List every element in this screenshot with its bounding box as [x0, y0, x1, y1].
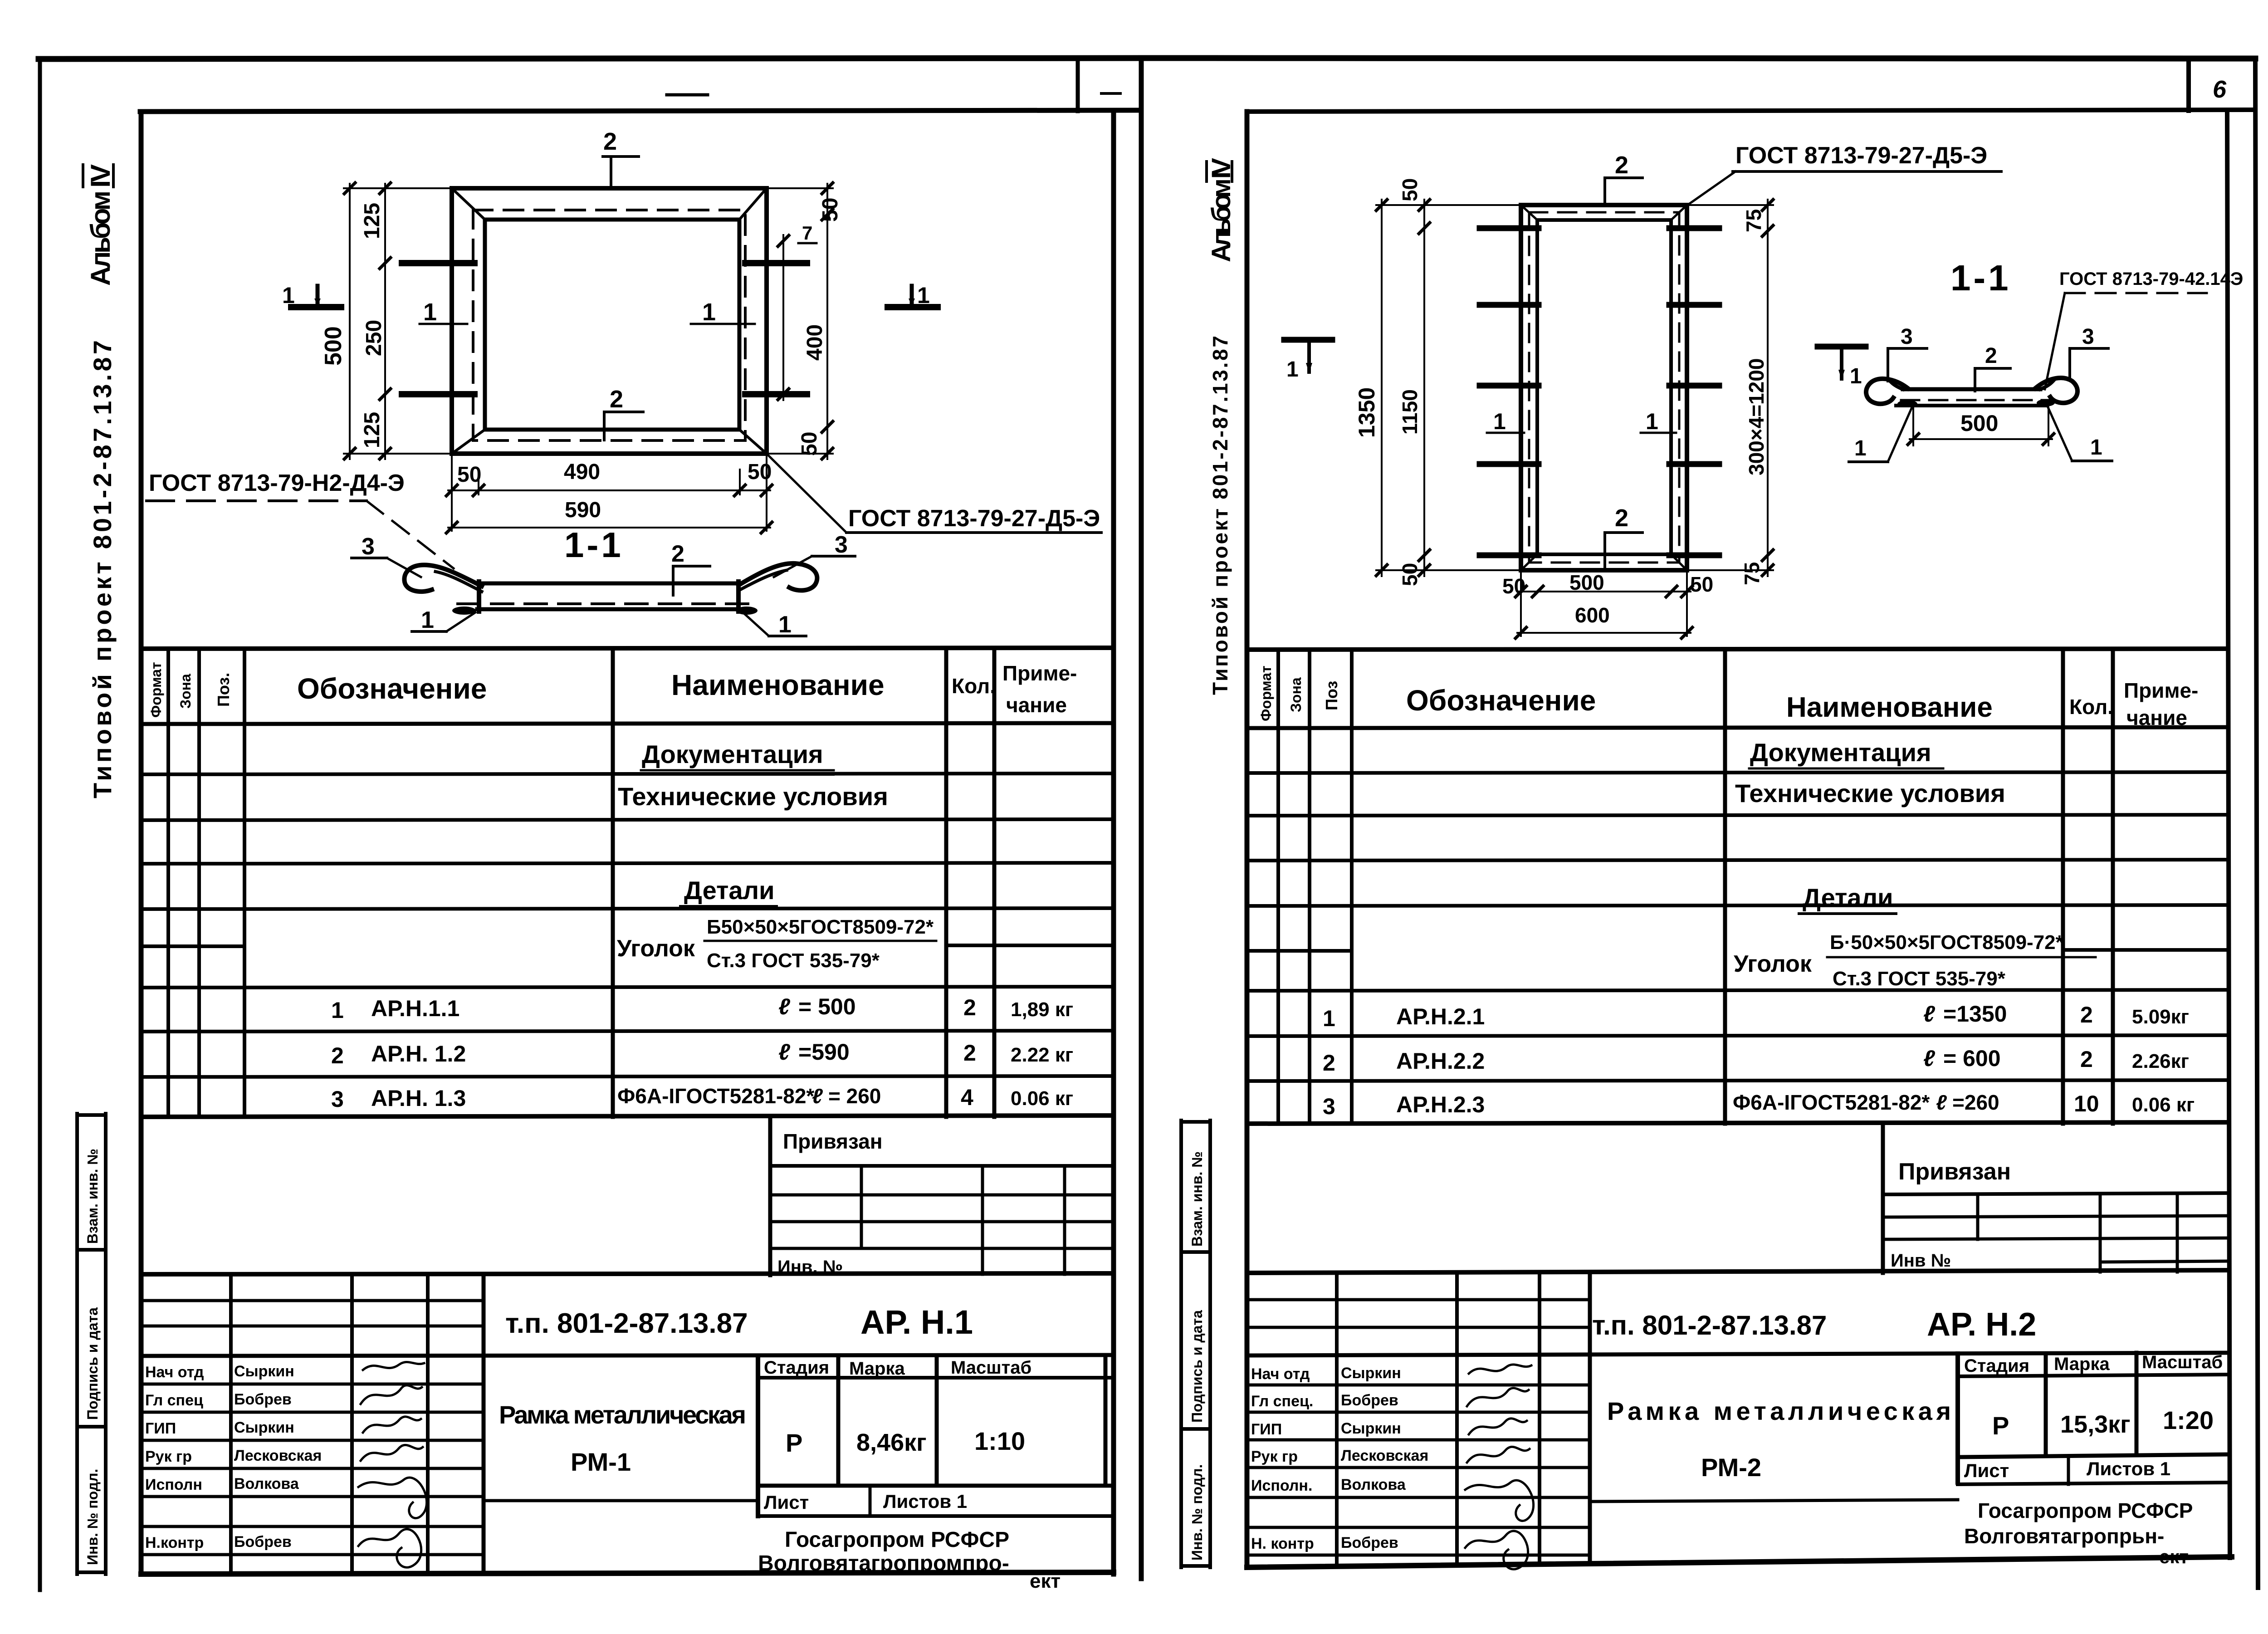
svg-text:Нач отд: Нач отд: [1251, 1365, 1310, 1383]
svg-text:Марка: Марка: [849, 1359, 905, 1379]
svg-text:400: 400: [803, 324, 827, 361]
extension verticals for bottom dims: [451, 454, 453, 531]
spec table bottom: [1247, 1122, 2228, 1124]
section view: left hook (pos.3): [1866, 379, 1908, 404]
svg-text:АР. Н.2: АР. Н.2: [1927, 1306, 2036, 1343]
svg-text:2: 2: [603, 128, 617, 155]
name cell divider: [1955, 1354, 1960, 1482]
svg-text:Бобрев: Бобрев: [234, 1391, 292, 1408]
sheet 1 top strip cell divider: [1076, 59, 1080, 111]
svg-text:Р: Р: [1992, 1411, 2009, 1440]
svg-text:Обозначение: Обозначение: [297, 672, 487, 705]
left dim extension lines: [1376, 204, 1521, 206]
svg-text:т.п. 801-2-87.13.87: т.п. 801-2-87.13.87: [505, 1308, 748, 1339]
svg-text:2: 2: [2080, 1002, 2093, 1027]
svg-text:Н.контр: Н.контр: [145, 1534, 204, 1551]
svg-text:Лесковская: Лесковская: [1341, 1447, 1428, 1464]
sheet 1 outer border top: [39, 58, 1141, 59]
svg-text:Наименование: Наименование: [671, 669, 885, 701]
svg-text:Уголок: Уголок: [617, 935, 695, 962]
svg-text:РМ-1: РМ-1: [571, 1448, 631, 1476]
signature squiggles: [363, 1362, 424, 1370]
svg-text:Документация: Документация: [1750, 738, 1931, 767]
section view: bar bottom line: [1896, 404, 2047, 407]
svg-text:ГОСТ 8713-79-Н2-Д4-Э: ГОСТ 8713-79-Н2-Д4-Э: [149, 470, 405, 496]
svg-text:= 600: = 600: [1943, 1046, 2001, 1071]
svg-text:ℓ: ℓ: [778, 1039, 791, 1065]
svg-text:Уголок: Уголок: [1734, 951, 1812, 977]
stadia header row: [758, 1376, 1114, 1380]
frame mitre diagonal top-right: [739, 188, 767, 220]
signature squiggles: [1469, 1365, 1531, 1374]
anchor bars pos.3 left (5): [1480, 225, 1539, 231]
svg-text:Взам. инв. №: Взам. инв. №: [84, 1149, 101, 1244]
svg-text:600: 600: [1575, 603, 1610, 627]
svg-text:ℓ: ℓ: [812, 1084, 823, 1108]
svg-text:Марка: Марка: [2054, 1354, 2110, 1374]
spec table row lines: [1247, 772, 2228, 773]
spec table column lines: [1276, 650, 1280, 1124]
svg-text:50: 50: [1502, 574, 1525, 598]
stray mark in top strip: [667, 93, 708, 97]
svg-text:2: 2: [2080, 1047, 2093, 1072]
svg-text:Бобрев: Бобрев: [1341, 1534, 1398, 1551]
svg-text:Зона: Зона: [177, 674, 194, 709]
section view: right upturn: [2040, 380, 2054, 389]
overline of roman IV: [82, 165, 84, 187]
svg-text:Технические условия: Технические условия: [1735, 779, 2005, 807]
svg-text:Нач отд: Нач отд: [145, 1364, 204, 1381]
section view: right hook (pos.3): [2035, 378, 2077, 403]
signature rows: [141, 1383, 484, 1386]
spec table bottom: [141, 1115, 1114, 1117]
svg-text:8,46кг: 8,46кг: [856, 1429, 927, 1456]
svg-text:ГИП: ГИП: [145, 1420, 176, 1437]
section view: dashed axis: [458, 602, 756, 605]
anchor bar pos.3 right upper: [745, 260, 807, 266]
svg-text:1:20: 1:20: [2163, 1406, 2214, 1434]
svg-text:1-1: 1-1: [564, 525, 624, 565]
PAGE2-TITLEBLOCK: [1247, 1270, 2228, 1569]
svg-text:ект: ект: [1030, 1570, 1061, 1592]
weld spot left: [452, 607, 476, 615]
line under first big row: [141, 1355, 1114, 1356]
svg-text:Инв. № подл.: Инв. № подл.: [1189, 1464, 1205, 1561]
stadia value box: [2044, 1354, 2048, 1456]
svg-text:ℓ: ℓ: [1923, 1046, 1936, 1071]
svg-text:АР.Н.2.2: АР.Н.2.2: [1396, 1048, 1485, 1074]
section view: bar bottom line: [477, 607, 740, 612]
svg-text:50: 50: [818, 198, 842, 222]
svg-text:Зона: Зона: [1288, 677, 1304, 712]
title block columns: [229, 1274, 233, 1574]
left dim chain: extension lines: [344, 187, 452, 189]
margin cells verticals: [1179, 1120, 1183, 1567]
svg-text:Волговятагропромпро-: Волговятагропромпро-: [758, 1551, 1009, 1575]
svg-text:Сыркин: Сыркин: [234, 1419, 294, 1436]
anchor bar pos.3 left lower: [402, 391, 474, 397]
svg-text:Исполн: Исполн: [145, 1476, 202, 1493]
svg-text:Масштаб: Масштаб: [2142, 1352, 2223, 1372]
svg-text:чание: чание: [1006, 693, 1067, 717]
svg-text:3: 3: [2082, 325, 2094, 349]
svg-text:Н. контр: Н. контр: [1251, 1535, 1314, 1552]
right dim 400 line: [782, 235, 784, 400]
svg-text:Ф6А-IГОСТ5281-82*: Ф6А-IГОСТ5281-82*: [617, 1084, 814, 1108]
svg-text:Рук гр: Рук гр: [145, 1448, 192, 1465]
svg-text:2: 2: [331, 1043, 344, 1068]
svg-text:4: 4: [961, 1085, 973, 1110]
svg-text:0.06 кг: 0.06 кг: [1011, 1087, 1073, 1110]
svg-text:ℓ: ℓ: [1923, 1001, 1936, 1027]
PAGE2-TABLE: [1247, 649, 2228, 1273]
svg-text:Документация: Документация: [642, 740, 823, 768]
sheet 1 top strip line (inner frame top): [140, 110, 1141, 112]
section view: bar top line: [477, 582, 740, 586]
svg-text:Приме-: Приме-: [2124, 679, 2198, 702]
spec table column lines: [166, 649, 170, 1117]
sheet 2 inner frame left: [1245, 112, 1250, 1567]
svg-text:2: 2: [963, 1040, 976, 1066]
thin rows top-left: [141, 1299, 484, 1302]
list row: [758, 1514, 1114, 1518]
svg-text:Типовой проект 801-2-87.13.87: Типовой проект 801-2-87.13.87: [88, 340, 117, 798]
section mark 1 near section view: [1818, 344, 1866, 350]
svg-text:1: 1: [702, 298, 716, 326]
svg-text:Бобрев: Бобрев: [234, 1533, 292, 1551]
svg-text:Поз.: Поз.: [214, 673, 233, 707]
svg-text:Рук гр: Рук гр: [1251, 1448, 1298, 1465]
frame mitre diagonal bottom-right: [739, 430, 767, 454]
weld spot right: [736, 607, 758, 615]
svg-text:3: 3: [1323, 1094, 1335, 1119]
svg-text:50: 50: [1398, 178, 1422, 201]
svg-text:АР.Н.2.1: АР.Н.2.1: [1396, 1004, 1485, 1029]
svg-text:Инв №: Инв №: [1891, 1251, 1951, 1271]
svg-text:Волкова: Волкова: [234, 1475, 299, 1492]
svg-text:1: 1: [2090, 435, 2102, 460]
margin cells dividers: [77, 1113, 106, 1117]
frame dashed centre contour: [473, 210, 745, 440]
svg-text:2.22 кг: 2.22 кг: [1011, 1044, 1073, 1066]
privyazan mini-table frame: [1881, 1124, 1885, 1273]
svg-text:ект: ект: [2159, 1546, 2189, 1567]
spec table top: [1247, 649, 2228, 650]
svg-text:Кол.: Кол.: [952, 674, 996, 698]
svg-text:Исполн.: Исполн.: [1251, 1477, 1312, 1494]
svg-text:Волговятагропрьн-: Волговятагропрьн-: [1964, 1524, 2164, 1548]
svg-text:15,3кг: 15,3кг: [2060, 1411, 2131, 1438]
svg-text:1,89 кг: 1,89 кг: [1011, 998, 1073, 1021]
bottom dim line 50/500/50: [1517, 591, 1691, 592]
svg-text:125: 125: [360, 203, 384, 239]
svg-text:=590: =590: [798, 1039, 850, 1065]
frame RM-1 plan view: inner contour (opening): [485, 220, 739, 430]
svg-text:3: 3: [1901, 325, 1913, 349]
frame mitre diagonal top-left: [452, 188, 485, 220]
anchor bar pos.3 left upper: [402, 260, 474, 266]
svg-text:2: 2: [671, 541, 684, 567]
svg-text:т.п. 801-2-87.13.87: т.п. 801-2-87.13.87: [1592, 1310, 1827, 1340]
svg-text:Привязан: Привязан: [1898, 1159, 2011, 1185]
frame RM-1 plan view: outer contour: [452, 188, 767, 454]
svg-text:1: 1: [282, 283, 295, 308]
svg-text:1: 1: [1286, 357, 1299, 382]
frame dashed centre contour: [1529, 212, 1679, 563]
left dim line 125/250/125: [384, 184, 386, 459]
sheet 1 inner frame right: [1111, 111, 1116, 1574]
svg-text:Лесковская: Лесковская: [234, 1447, 322, 1464]
spec table header bottom: [1247, 727, 2228, 728]
bottom dim line 600: [1517, 632, 1691, 634]
svg-text:=260: =260: [1952, 1091, 1999, 1114]
svg-text:Формат: Формат: [1258, 665, 1274, 721]
frame RM-2 plan view: inner contour: [1537, 220, 1671, 554]
sheet 2 outer border right: [2255, 59, 2258, 1588]
svg-text:Кол.: Кол.: [2069, 695, 2113, 719]
svg-text:1: 1: [1493, 409, 1506, 434]
svg-text:6: 6: [2213, 76, 2227, 103]
margin cells dividers: [1181, 1120, 1210, 1124]
spec table header bottom: [141, 723, 1114, 724]
svg-text:75: 75: [1740, 562, 1764, 585]
svg-text:Сыркин: Сыркин: [1341, 1420, 1401, 1437]
line under first big row: [1247, 1353, 2228, 1355]
svg-text:490: 490: [564, 460, 600, 484]
svg-text:50: 50: [1398, 563, 1422, 586]
svg-text:Листов 1: Листов 1: [883, 1491, 967, 1512]
frame mitre diagonal bottom-left: [452, 430, 485, 454]
PAGE2-MARGIN: [1181, 158, 1236, 1567]
PAGE1-DRAWING: [147, 128, 1101, 638]
svg-text:1350: 1350: [1354, 387, 1379, 438]
svg-text:50: 50: [1690, 572, 1713, 596]
svg-text:1: 1: [1646, 409, 1658, 434]
signature rows: [1247, 1384, 1590, 1387]
svg-text:1: 1: [778, 612, 792, 638]
svg-text:2: 2: [610, 386, 623, 413]
section view: bar top line: [1903, 387, 2040, 391]
svg-text:Госагропром РСФСР: Госагропром РСФСР: [1978, 1499, 2193, 1522]
svg-text:2: 2: [963, 995, 976, 1020]
svg-text:АР.Н. 1.2: АР.Н. 1.2: [371, 1041, 466, 1067]
svg-text:Формат: Формат: [148, 662, 164, 718]
svg-text:Обозначение: Обозначение: [1406, 684, 1596, 717]
svg-text:1: 1: [1850, 364, 1862, 388]
right dim 50/400/50 line: [826, 184, 828, 459]
svg-text:1: 1: [917, 283, 930, 308]
svg-text:Инв. № подл.: Инв. № подл.: [84, 1469, 101, 1565]
title block columns: [1335, 1273, 1339, 1566]
svg-text:Технические условия: Технические условия: [618, 782, 888, 811]
frame RM-2 plan view: outer contour: [1521, 205, 1687, 570]
name cell divider: [756, 1356, 760, 1516]
svg-text:1: 1: [331, 998, 344, 1023]
section view: left hook (pos.3): [404, 565, 482, 592]
svg-text:500: 500: [1569, 571, 1604, 594]
svg-text:50: 50: [748, 460, 772, 484]
svg-text:125: 125: [360, 412, 384, 448]
svg-text:Детали: Детали: [684, 876, 775, 905]
left dim line 1350: [1381, 200, 1383, 576]
svg-text:ℓ: ℓ: [778, 994, 791, 1019]
section view: left end cap: [477, 582, 481, 612]
section view: right hook (pos.3): [738, 563, 817, 591]
spec table top: [141, 648, 1114, 649]
svg-text:10: 10: [2074, 1091, 2099, 1116]
svg-text:Лист: Лист: [1964, 1460, 2009, 1481]
svg-text:Госагропром РСФСР: Госагропром РСФСР: [785, 1528, 1009, 1552]
svg-text:1: 1: [423, 298, 437, 326]
left dim line 50/1150/50: [1423, 200, 1425, 576]
svg-text:250: 250: [362, 320, 386, 356]
svg-text:1: 1: [1854, 436, 1867, 460]
bottom dim line 50/490/50: [448, 489, 770, 491]
sheet 1 outer border right (seam between sheets): [1139, 58, 1144, 1579]
svg-text:Стадия: Стадия: [1964, 1356, 2029, 1376]
svg-text:ГИП: ГИП: [1251, 1421, 1282, 1438]
svg-text:Б50×50×5ГОСТ8509-72*: Б50×50×5ГОСТ8509-72*: [707, 916, 934, 938]
section view: left upturn: [1889, 380, 1903, 389]
svg-text:АР.Н.2.3: АР.Н.2.3: [1396, 1092, 1485, 1117]
svg-text:ГОСТ 8713-79-27-Д5-Э: ГОСТ 8713-79-27-Д5-Э: [848, 505, 1100, 532]
svg-text:2: 2: [1323, 1050, 1335, 1076]
sheet 2 top strip line (inner frame top): [1247, 110, 2255, 112]
svg-text:Б·50×50×5ГОСТ8509-72*: Б·50×50×5ГОСТ8509-72*: [1830, 931, 2064, 954]
svg-text:Подпись и дата: Подпись и дата: [1189, 1310, 1205, 1423]
svg-text:Листов 1: Листов 1: [2087, 1458, 2170, 1479]
svg-text:2: 2: [1985, 344, 1997, 368]
svg-text:Типовой проект 801-2-87.13.87: Типовой проект 801-2-87.13.87: [1208, 336, 1232, 695]
svg-text:ℓ: ℓ: [1936, 1091, 1947, 1114]
svg-text:1:10: 1:10: [974, 1427, 1025, 1455]
list row: [1958, 1482, 2228, 1484]
svg-text:2: 2: [1615, 152, 1628, 179]
svg-text:1150: 1150: [1398, 389, 1422, 435]
svg-text:3: 3: [835, 532, 848, 558]
svg-text:300×4=1200: 300×4=1200: [1745, 358, 1768, 475]
svg-text:Волкова: Волкова: [1341, 1476, 1406, 1493]
svg-text:Масштаб: Масштаб: [951, 1358, 1031, 1378]
overline of roman IV: [1205, 161, 1208, 181]
svg-text:Привязан: Привязан: [783, 1130, 883, 1153]
svg-text:Гл спец.: Гл спец.: [1251, 1393, 1313, 1410]
svg-text:50: 50: [797, 432, 821, 456]
svg-text:1: 1: [1323, 1006, 1335, 1031]
svg-text:Бобрев: Бобрев: [1341, 1392, 1398, 1409]
sheet 2 inner frame bottom (title block bottom): [1247, 1557, 2232, 1567]
privyazan mini-table frame: [768, 1117, 772, 1275]
svg-text:Наименование: Наименование: [1786, 692, 1993, 723]
svg-text:Детали: Детали: [1803, 883, 1893, 912]
svg-text:500: 500: [320, 326, 347, 366]
svg-text:1: 1: [421, 607, 434, 633]
section view: right end cap: [736, 582, 741, 612]
sheet 1 outer border left: [38, 59, 42, 1590]
svg-text:АР.Н. 1.3: АР.Н. 1.3: [371, 1086, 466, 1111]
section mark 1 left: [1284, 337, 1332, 343]
sheet 2 outer border top: [1141, 58, 2255, 59]
svg-text:Сыркин: Сыркин: [1341, 1365, 1401, 1382]
svg-text:Приме-: Приме-: [1002, 661, 1077, 685]
section mark 1 right of plan: [888, 304, 938, 310]
svg-text:Ст.3 ГОСТ 535-79*: Ст.3 ГОСТ 535-79*: [707, 949, 880, 972]
svg-text:Ст.3 ГОСТ 535-79*: Ст.3 ГОСТ 535-79*: [1833, 968, 2006, 990]
sheet 1 inner frame left: [139, 112, 144, 1574]
spec table row lines: [141, 773, 1114, 774]
svg-text:ГОСТ 8713-79-42.14Э: ГОСТ 8713-79-42.14Э: [2059, 269, 2243, 289]
section dim 500: [1912, 407, 1914, 445]
sheet 1 inner frame bottom (title block bottom): [141, 1572, 1114, 1574]
anchor bar pos.3 right lower: [745, 391, 807, 397]
svg-text:7: 7: [802, 222, 812, 244]
svg-text:Рамка металлическая: Рамка металлическая: [499, 1400, 746, 1429]
svg-text:0.06 кг: 0.06 кг: [2132, 1094, 2195, 1116]
svg-text:Гл спец: Гл спец: [145, 1392, 203, 1409]
frame mitre diagonals: [1521, 205, 1537, 220]
right dim line 75/300x4=1200/75: [1767, 200, 1769, 576]
svg-text:Сыркин: Сыркин: [234, 1363, 294, 1380]
PAGE1-TITLEBLOCK: [141, 1273, 1114, 1592]
svg-text:Взам. инв. №: Взам. инв. №: [1189, 1151, 1205, 1247]
title block top: [141, 1273, 1114, 1274]
svg-text:ГОСТ 8713-79-27-Д5-Э: ГОСТ 8713-79-27-Д5-Э: [1735, 142, 1987, 169]
svg-text:Ф6А-IГОСТ5281-82*: Ф6А-IГОСТ5281-82*: [1733, 1091, 1930, 1114]
title block top: [1247, 1270, 2228, 1273]
svg-text:5.09кг: 5.09кг: [2132, 1006, 2189, 1028]
weld spot left: [1897, 400, 1917, 407]
bottom dim line 590: [448, 527, 770, 528]
thin rows top-left: [1247, 1298, 1590, 1301]
svg-text:3: 3: [362, 533, 375, 560]
PAGE1-MARGIN: [77, 164, 117, 1574]
svg-text:= 500: = 500: [798, 994, 856, 1019]
sheet 2 inner frame right: [2227, 110, 2230, 1558]
svg-text:Поз: Поз: [1322, 681, 1341, 710]
section mark 1 left of plan: [291, 304, 341, 310]
svg-text:Подпись и дата: Подпись и дата: [84, 1307, 101, 1420]
svg-text:75: 75: [1742, 209, 1765, 232]
svg-text:= 260: = 260: [828, 1084, 881, 1108]
svg-text:АР.Н.1.1: АР.Н.1.1: [371, 996, 459, 1021]
PAGE1-TABLE: [141, 648, 1114, 1277]
svg-text:Стадия: Стадия: [764, 1358, 829, 1378]
sheet 2 page number box divider: [2186, 59, 2191, 111]
svg-text:3: 3: [331, 1086, 344, 1112]
svg-text:590: 590: [565, 498, 601, 522]
stadia header row: [1958, 1375, 2228, 1376]
svg-text:Лист: Лист: [764, 1492, 809, 1513]
svg-text:Альбом IV: Альбом IV: [85, 164, 116, 286]
anchor bars pos.3 right (5): [1669, 225, 1719, 231]
svg-text:Р: Р: [786, 1429, 802, 1457]
svg-text:=1350: =1350: [1943, 1001, 2007, 1027]
svg-text:500: 500: [1960, 411, 1998, 436]
svg-text:2: 2: [1615, 504, 1628, 532]
PAGE2-DRAWING: [1284, 142, 2243, 638]
svg-text:РМ-2: РМ-2: [1701, 1453, 1761, 1482]
bottom dim extension verticals: [1520, 570, 1522, 636]
stadia value box: [836, 1356, 841, 1486]
margin cells verticals: [75, 1114, 79, 1574]
left dim line 500: [349, 184, 351, 459]
svg-text:2.26кг: 2.26кг: [2132, 1050, 2189, 1072]
svg-text:АР. Н.1: АР. Н.1: [860, 1303, 973, 1341]
section view: dashed axis: [1901, 399, 2048, 401]
svg-text:1-1: 1-1: [1950, 258, 2011, 298]
weld spot right: [2037, 399, 2055, 406]
svg-text:чание: чание: [2126, 706, 2187, 729]
